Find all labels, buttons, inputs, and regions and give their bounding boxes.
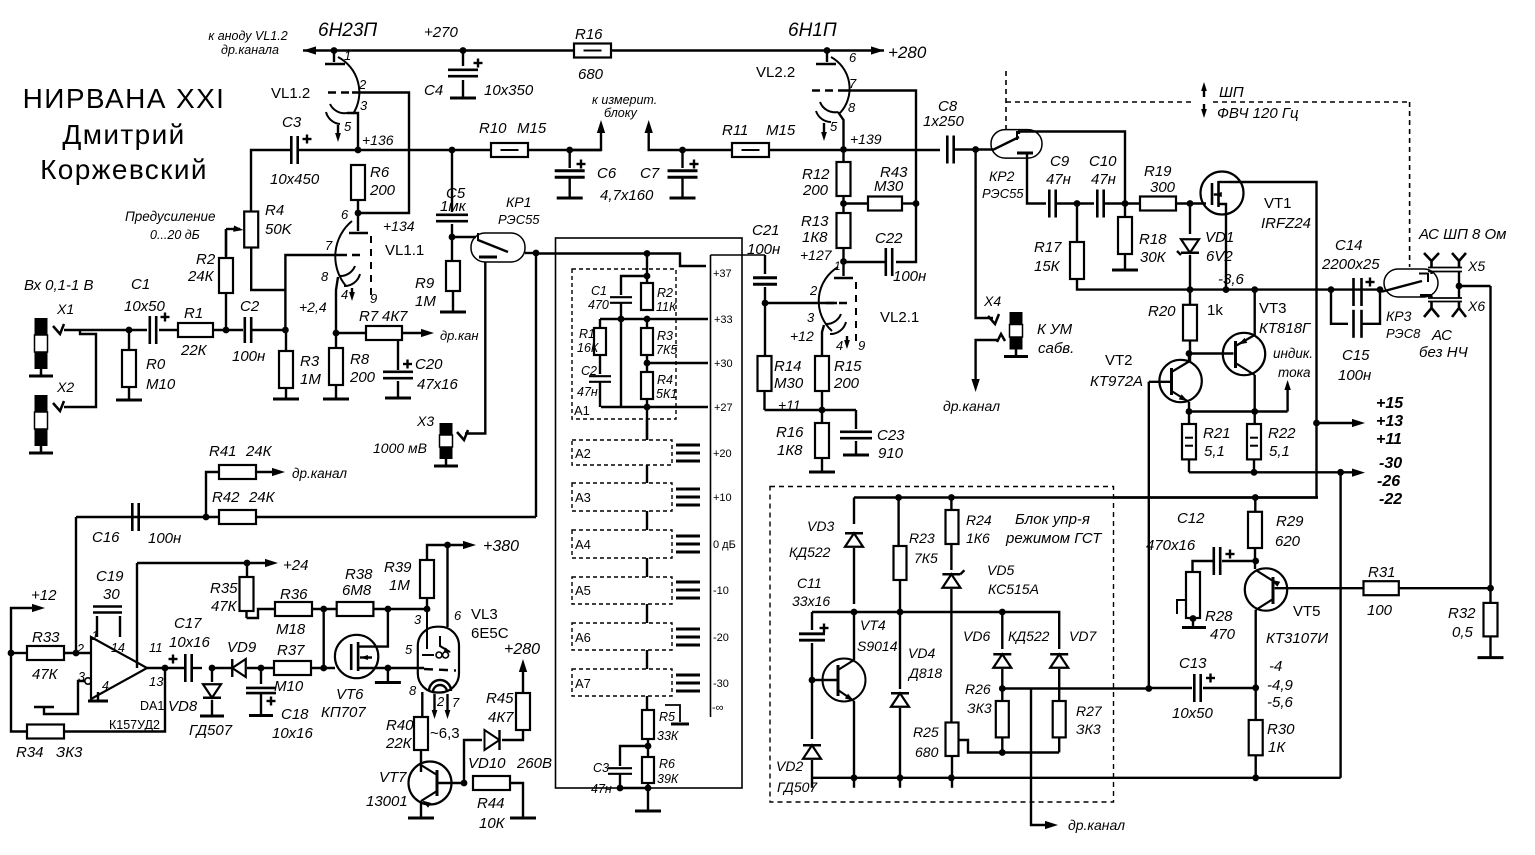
svg-text:+37: +37 — [713, 268, 732, 280]
svg-text:КТ3107И: КТ3107И — [1266, 630, 1328, 647]
svg-text:R1: R1 — [184, 305, 203, 322]
svg-text:2200x25: 2200x25 — [1321, 256, 1380, 273]
svg-text:680: 680 — [578, 66, 604, 83]
wire input X1 — [64, 329, 129, 331]
diode VD8 — [209, 665, 216, 672]
svg-text:C16: C16 — [92, 529, 120, 546]
svg-text:C1: C1 — [591, 284, 607, 298]
wire VD6 row to C13 — [1002, 687, 1149, 689]
svg-text:блоку: блоку — [604, 106, 638, 120]
svg-text:7К5: 7К5 — [656, 343, 677, 357]
svg-text:4,7x160: 4,7x160 — [600, 187, 654, 204]
wire R21 R22 bottom -30 arrow — [1189, 471, 1341, 473]
svg-text:8: 8 — [848, 100, 856, 115]
svg-text:VT3: VT3 — [1259, 300, 1287, 317]
attenuator section А3 — [572, 483, 672, 511]
svg-text:470: 470 — [588, 298, 609, 312]
wire block input — [536, 252, 647, 254]
wire C3 left to R4 — [251, 150, 291, 211]
svg-text:R16: R16 — [776, 424, 804, 441]
svg-text:24К: 24К — [248, 489, 276, 506]
transistor VT5 — [1245, 568, 1287, 610]
resistor R35 — [240, 577, 254, 611]
node +33 row — [644, 316, 651, 323]
svg-text:VD5: VD5 — [987, 562, 1014, 578]
svg-text:X5: X5 — [1467, 258, 1485, 274]
svg-text:6: 6 — [341, 207, 349, 222]
capacitor C10 — [1096, 190, 1099, 218]
dashed control line SHP — [1005, 71, 1007, 129]
svg-text:4: 4 — [836, 338, 843, 353]
svg-text:КР2: КР2 — [989, 168, 1015, 184]
svg-text:VD9: VD9 — [227, 639, 257, 656]
svg-text:А7: А7 — [575, 676, 591, 691]
GST control block dashed outline — [770, 487, 1114, 803]
wire VT2 base — [1149, 381, 1170, 383]
svg-text:13: 13 — [149, 674, 164, 689]
svg-text:3: 3 — [360, 98, 368, 113]
diode VD9 — [212, 667, 231, 669]
capacitor C17 — [184, 654, 187, 682]
svg-text:C11: C11 — [797, 575, 822, 591]
node +280 arrow — [871, 46, 884, 54]
wire GST top — [854, 496, 1318, 498]
svg-text:R24: R24 — [966, 512, 992, 528]
svg-text:C2: C2 — [581, 364, 597, 378]
svg-text:R4: R4 — [265, 202, 284, 219]
svg-text:33К: 33К — [657, 729, 679, 743]
svg-text:ШП: ШП — [1219, 84, 1244, 101]
capacitor C23 — [855, 410, 857, 429]
wire R36 to gate — [323, 609, 325, 668]
node +27 row — [646, 399, 648, 410]
svg-text:R37: R37 — [277, 642, 305, 659]
svg-text:КТ818Г: КТ818Г — [1259, 320, 1312, 337]
svg-text:39К: 39К — [657, 772, 679, 786]
svg-text:C10: C10 — [1089, 153, 1117, 170]
svg-text:200: 200 — [349, 369, 376, 386]
svg-text:C2: C2 — [240, 298, 260, 315]
svg-text:-30: -30 — [1379, 455, 1402, 472]
svg-text:C6: C6 — [597, 165, 617, 182]
svg-text:22К: 22К — [180, 342, 208, 359]
resistor R43 — [844, 202, 869, 204]
X6 bus double line — [1428, 297, 1462, 299]
resistor R2 — [223, 327, 230, 334]
svg-text:М15: М15 — [517, 120, 547, 137]
wire +270 top rail — [334, 49, 884, 51]
svg-text:R30: R30 — [1267, 721, 1295, 738]
svg-text:R11: R11 — [722, 122, 748, 139]
connector X6 forks — [1424, 302, 1439, 317]
wire chain down — [646, 407, 648, 440]
resistor R31 — [1364, 581, 1399, 595]
svg-text:VT5: VT5 — [1293, 603, 1321, 620]
svg-text:R2: R2 — [196, 251, 216, 268]
svg-text:R21: R21 — [1203, 425, 1231, 442]
resistor R16 cathode — [815, 423, 829, 458]
svg-text:без НЧ: без НЧ — [1419, 344, 1469, 361]
wire VT6 source to VL3 grid — [378, 667, 424, 669]
svg-text:R3: R3 — [300, 353, 320, 370]
mosfet VT1 — [1201, 172, 1244, 215]
svg-text:8: 8 — [409, 683, 417, 698]
resistor R29 — [1252, 494, 1259, 501]
svg-text:КД522: КД522 — [1008, 628, 1050, 644]
wire VT6 drain up — [378, 609, 388, 647]
svg-text:др.канал: др.канал — [1068, 817, 1125, 833]
capacitor C13 — [1252, 684, 1259, 691]
svg-text:R1: R1 — [579, 327, 595, 341]
svg-text:VT4: VT4 — [860, 617, 886, 633]
svg-text:0,5: 0,5 — [1452, 624, 1474, 641]
arrow +380 — [444, 542, 451, 549]
svg-text:А6: А6 — [575, 630, 591, 645]
wire VL1.2 grid to VL1.1 anode — [352, 93, 409, 214]
triode VL2.2 — [824, 47, 831, 54]
capacitor C19 — [96, 616, 98, 637]
svg-text:НИРВАНА XXI: НИРВАНА XXI — [23, 83, 226, 114]
node C14 KP3 — [1377, 286, 1384, 293]
svg-text:7: 7 — [325, 238, 333, 253]
svg-text:VD6: VD6 — [963, 628, 990, 644]
svg-text:РЭС55: РЭС55 — [498, 212, 540, 227]
block A1 dashed box — [572, 269, 676, 419]
capacitor C18 — [258, 665, 265, 672]
resistor R25 — [946, 723, 959, 757]
wire C8 to KP2 and X4 — [972, 146, 979, 153]
resistor R4 block — [641, 372, 653, 399]
svg-text:1x250: 1x250 — [923, 113, 965, 130]
relay KP3 — [1384, 269, 1438, 297]
resistor R8 — [335, 333, 337, 348]
svg-text:Х3: Х3 — [416, 413, 434, 429]
capacitor C8 — [946, 136, 949, 164]
resistor R22 — [1253, 412, 1255, 425]
svg-text:VD3: VD3 — [807, 518, 834, 534]
svg-text:8: 8 — [321, 269, 329, 284]
resistor R21 — [1188, 412, 1190, 425]
block chain to R5 — [646, 696, 648, 710]
wire X5 X6 to feedback — [1430, 272, 1432, 275]
resistor R12 — [842, 150, 844, 163]
svg-text:+280: +280 — [504, 641, 540, 658]
bottom rail — [812, 777, 1341, 779]
svg-text:VD10: VD10 — [468, 755, 506, 772]
svg-text:КТ972А: КТ972А — [1090, 373, 1143, 390]
wire R10 to C6 node — [528, 149, 601, 151]
svg-text:+11: +11 — [1376, 431, 1402, 448]
wire R4 bottom to grid line — [251, 248, 285, 291]
node +134 — [355, 210, 362, 217]
wire X2 branch — [64, 330, 96, 407]
svg-text:C14: C14 — [1335, 237, 1363, 254]
node C9 C10 R17 — [1074, 200, 1081, 207]
resistor R26 — [999, 685, 1006, 692]
wire pin3 to R34 wiper — [44, 681, 85, 714]
relay KP2 bypass wire — [1019, 132, 1125, 204]
transistor VT4 — [823, 659, 866, 702]
svg-text:10x450: 10x450 — [270, 171, 320, 188]
svg-text:-20: -20 — [713, 632, 729, 644]
svg-text:470: 470 — [1210, 626, 1236, 643]
indicator tube VL3 — [446, 545, 448, 627]
triode VL2.1 — [842, 262, 844, 277]
svg-text:R36: R36 — [280, 586, 308, 603]
svg-text:+15: +15 — [1376, 395, 1404, 412]
wire R36 R38 row — [312, 608, 337, 610]
wire KP1 output down to preamp — [533, 250, 540, 257]
svg-text:47н: 47н — [1091, 171, 1116, 188]
svg-text:100н: 100н — [1338, 367, 1371, 384]
svg-text:6Н23П: 6Н23П — [318, 20, 377, 41]
capacitor C3 block — [620, 746, 648, 766]
inverting input circle — [85, 678, 91, 684]
wire drain bus to GST — [1113, 496, 1318, 498]
VL3 cathode arcs — [429, 680, 451, 691]
relay KP2 — [991, 130, 1042, 159]
svg-text:+139: +139 — [850, 131, 882, 147]
svg-text:680: 680 — [915, 744, 939, 760]
svg-text:R29: R29 — [1276, 513, 1304, 530]
wire VT1 drain bus — [1230, 182, 1317, 498]
svg-text:-10: -10 — [713, 585, 729, 597]
arrow SHP up — [1203, 86, 1205, 97]
mosfet VT6 — [335, 635, 378, 678]
svg-text:VD7: VD7 — [1069, 628, 1097, 644]
svg-text:R5: R5 — [659, 710, 675, 724]
wire -30 bus down — [1339, 472, 1341, 778]
wire +380 — [426, 598, 428, 609]
svg-text:C1: C1 — [131, 276, 150, 293]
op-amp output node — [147, 667, 184, 669]
current indicator arrow — [1186, 408, 1193, 415]
svg-text:13001: 13001 — [366, 793, 408, 810]
svg-text:1000 мВ: 1000 мВ — [373, 440, 427, 456]
svg-text:260В: 260В — [516, 755, 552, 772]
svg-text:~6,3: ~6,3 — [430, 725, 460, 742]
resistor R39 — [420, 560, 434, 598]
block ground stub — [665, 705, 680, 722]
svg-text:IRFZ24: IRFZ24 — [1261, 215, 1311, 232]
svg-text:К УМ: К УМ — [1037, 321, 1073, 338]
capacitor C6 — [566, 147, 573, 154]
svg-text:0...20 дБ: 0...20 дБ — [150, 228, 200, 242]
svg-text:+10: +10 — [713, 492, 732, 504]
svg-text:C7: C7 — [640, 165, 660, 182]
svg-text:C18: C18 — [281, 706, 309, 723]
svg-text:R22: R22 — [1268, 425, 1296, 442]
svg-text:-5,6: -5,6 — [1267, 694, 1294, 711]
svg-text:R42: R42 — [212, 489, 240, 506]
svg-text:1М: 1М — [389, 577, 410, 594]
svg-text:VL3: VL3 — [471, 606, 498, 623]
svg-text:6Н1П: 6Н1П — [788, 20, 837, 41]
node C10 R18 R19 — [1122, 200, 1129, 207]
svg-text:Коржевский: Коржевский — [40, 154, 208, 185]
svg-text:R8: R8 — [350, 351, 370, 368]
svg-text:11: 11 — [149, 640, 163, 655]
wire VL1.2 cathode to +136 node — [347, 113, 358, 150]
svg-text:620: 620 — [1275, 533, 1301, 550]
svg-text:др.канал: др.канал — [943, 398, 1000, 414]
svg-text:А4: А4 — [575, 537, 591, 552]
svg-text:C19: C19 — [96, 568, 124, 585]
svg-text:РЭС8: РЭС8 — [1386, 326, 1421, 341]
svg-text:7К5: 7К5 — [914, 550, 938, 566]
svg-text:100н: 100н — [232, 348, 265, 365]
resistor R40 — [421, 692, 423, 717]
wire feedback down — [1489, 286, 1491, 588]
svg-text:24К: 24К — [187, 268, 215, 285]
svg-text:R15: R15 — [834, 358, 862, 375]
svg-text:КР1: КР1 — [506, 194, 531, 210]
svg-text:VT2: VT2 — [1105, 352, 1133, 369]
svg-text:4К7: 4К7 — [488, 709, 514, 726]
svg-text:X4: X4 — [983, 293, 1001, 309]
svg-text:R20: R20 — [1148, 303, 1176, 320]
wire C11 row — [851, 609, 858, 616]
svg-text:30: 30 — [103, 586, 120, 603]
svg-text:VL2.2: VL2.2 — [756, 64, 795, 81]
svg-text:Блок упр-я: Блок упр-я — [1015, 511, 1090, 528]
svg-text:R17: R17 — [1034, 239, 1062, 256]
svg-text:50K: 50K — [265, 221, 293, 238]
transistor VT7 — [409, 762, 452, 805]
svg-text:R35: R35 — [210, 580, 238, 597]
capacitor C22 — [896, 204, 916, 263]
diode VD6 — [999, 609, 1006, 616]
svg-text:200: 200 — [802, 182, 829, 199]
svg-text:C22: C22 — [875, 230, 903, 247]
svg-text:РЭС55: РЭС55 — [982, 186, 1024, 201]
measurement arrows — [570, 124, 601, 150]
node grid junction — [282, 327, 289, 334]
resistor R15 — [815, 356, 829, 391]
svg-text:470x16: 470x16 — [1146, 537, 1196, 554]
capacitor C4 — [460, 47, 467, 54]
svg-text:R6: R6 — [659, 757, 675, 771]
svg-text:КП707: КП707 — [321, 704, 366, 721]
arrow to other channel — [402, 332, 425, 334]
svg-text:R45: R45 — [486, 690, 514, 707]
svg-text:5К1: 5К1 — [656, 387, 677, 401]
svg-text:4К7: 4К7 — [382, 308, 408, 325]
svg-text:R3: R3 — [657, 329, 673, 343]
wire VT1 source — [1225, 212, 1227, 290]
svg-text:сабв.: сабв. — [1038, 340, 1074, 357]
VT6 source ground — [387, 668, 389, 681]
svg-text:9: 9 — [370, 291, 377, 306]
diode VD10 — [464, 740, 482, 783]
svg-text:R26: R26 — [965, 681, 991, 697]
svg-text:+2,4: +2,4 — [299, 299, 327, 315]
resistor R30 — [1249, 720, 1263, 755]
svg-text:6Е5С: 6Е5С — [471, 625, 509, 642]
resistor R44 — [461, 780, 468, 787]
wire KP1 to X3 — [465, 262, 485, 434]
svg-text:ЗК3: ЗК3 — [1076, 721, 1101, 737]
svg-text:10К: 10К — [479, 815, 506, 832]
svg-text:М15: М15 — [766, 122, 796, 139]
svg-text:47н: 47н — [591, 782, 612, 796]
relay KP2 to C9 — [1027, 153, 1046, 204]
svg-text:10x50: 10x50 — [1172, 705, 1214, 722]
svg-text:индик.: индик. — [1273, 346, 1313, 361]
svg-text:+270: +270 — [424, 24, 458, 41]
op-amp DA1 — [91, 637, 147, 699]
svg-text:М30: М30 — [874, 178, 904, 195]
svg-text:R41: R41 — [209, 443, 237, 460]
svg-text:9: 9 — [858, 338, 865, 353]
resistor R17 — [1076, 204, 1078, 243]
svg-text:-∞: -∞ — [712, 702, 724, 714]
svg-text:VD2: VD2 — [776, 758, 803, 774]
svg-text:R25: R25 — [913, 724, 939, 740]
svg-text:C3: C3 — [593, 761, 609, 775]
heater arrow VL1.2 pin5 — [337, 125, 339, 138]
svg-text:ЗК3: ЗК3 — [56, 744, 83, 761]
svg-text:М18: М18 — [276, 621, 306, 638]
svg-text:2: 2 — [76, 642, 84, 656]
svg-text:1: 1 — [834, 259, 841, 273]
svg-text:100н: 100н — [148, 530, 181, 547]
svg-text:R18: R18 — [1139, 231, 1167, 248]
svg-text:А2: А2 — [575, 446, 591, 461]
resistor R13 — [837, 213, 851, 248]
capacitor C15 — [1331, 290, 1348, 324]
svg-text:5: 5 — [830, 119, 838, 134]
svg-text:+136: +136 — [362, 132, 394, 148]
resistor R42 — [203, 514, 210, 521]
resistor R45 — [502, 730, 523, 740]
heater arrow VL2.1 pin 9 — [846, 336, 848, 345]
resistor R10 — [491, 143, 528, 157]
wire C21 to VL2.1 grid — [765, 302, 837, 304]
wire +supply arrow — [1313, 420, 1320, 427]
resistor R6 block — [642, 757, 654, 783]
svg-text:3: 3 — [807, 310, 815, 325]
diode VD3 — [853, 498, 855, 525]
svg-text:30К: 30К — [1140, 249, 1167, 266]
svg-text:0 дБ: 0 дБ — [713, 539, 736, 551]
svg-text:+134: +134 — [383, 218, 415, 234]
heater arrow VL1.1 pin 9 — [351, 288, 353, 297]
svg-text:VT1: VT1 — [1264, 195, 1292, 212]
capacitor C11 — [811, 612, 813, 630]
svg-text:47К: 47К — [32, 666, 59, 683]
svg-text:-22: -22 — [1379, 491, 1402, 508]
resistor R23 — [895, 494, 902, 501]
svg-text:R2: R2 — [657, 286, 673, 300]
svg-text:2: 2 — [436, 694, 445, 709]
attenuator section А7 — [572, 669, 672, 696]
VL3 heater pins 2 7 — [433, 694, 435, 712]
zener VD5 — [948, 494, 955, 501]
svg-text:+20: +20 — [713, 448, 732, 460]
svg-text:+13: +13 — [1376, 413, 1403, 430]
svg-text:S9014: S9014 — [857, 638, 898, 654]
capacitor C1 — [129, 329, 147, 331]
svg-text:6: 6 — [849, 50, 857, 65]
capacitor C9 — [1048, 190, 1051, 218]
resistor R3 — [279, 351, 293, 388]
attenuator section А4 — [572, 530, 672, 558]
diode VD4 — [899, 612, 901, 689]
connector X3 — [457, 430, 468, 440]
svg-text:5,1: 5,1 — [1269, 443, 1290, 460]
relay KP1 — [449, 234, 456, 241]
